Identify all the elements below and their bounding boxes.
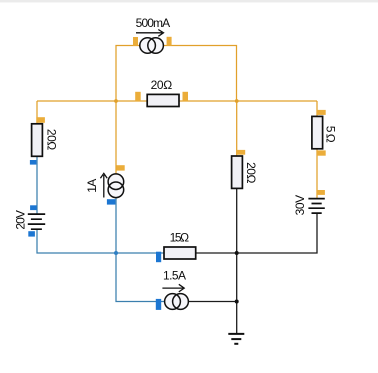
wire: column E between 5-ohm and 30V battery (orange net) [316, 148, 318, 199]
battery V1 20V [28, 205, 45, 236]
wire: column E upper to 5-ohm resistor (orange net) [316, 101, 318, 117]
svg-text:20Ω: 20Ω [45, 129, 59, 150]
resistor R3 20ohm vertical middle [232, 150, 246, 189]
battery V2 30V [308, 190, 325, 213]
svg-text:15Ω: 15Ω [170, 230, 190, 244]
svg-text:500mA: 500mA [136, 16, 171, 30]
node: junction D-row2 (orange) [235, 99, 239, 103]
wire: column A bottom and row3 left segment (blue net) [37, 229, 116, 253]
svg-text:20V: 20V [14, 210, 28, 230]
node: junction B-row3 (blue) [114, 251, 118, 255]
resistor R1 20ohm horizontal [135, 92, 188, 107]
wire: column D upper to R3 (orange net) [236, 101, 238, 157]
current source I3 1.5A [156, 284, 189, 310]
node: junction D-row3 (black) [235, 251, 239, 255]
svg-text:30V: 30V [293, 195, 307, 216]
wire: column B middle to 1A source (orange net) [115, 101, 117, 175]
wire: column A lower R2 to 20V battery (blue net) [36, 156, 38, 215]
wire: column A upper to R2 (orange net) [36, 101, 38, 125]
svg-text:1A: 1A [85, 179, 99, 193]
wire: row3 right of 15-ohm to column E (black net) [196, 213, 318, 253]
wire: column B lower from 1A source down and row4 left (blue net) [116, 197, 165, 302]
svg-text:20Ω: 20Ω [244, 162, 258, 183]
resistor R4 5ohm vertical right [312, 110, 326, 156]
node: junction D-row4 (black) [235, 300, 239, 304]
wire: row4 right of 1.5A source (black net) [189, 301, 237, 303]
wire: column D lower from R3 to ground (black net) [236, 188, 238, 333]
resistor R2 20ohm vertical left [30, 117, 45, 164]
svg-text:20Ω: 20Ω [151, 78, 173, 92]
current source I2 1A vertical [100, 165, 124, 204]
wire: top loop row1 + column B upper (orange net) [116, 46, 237, 102]
node: junction B-row2 (orange) [114, 99, 118, 103]
ground [228, 334, 244, 344]
resistor R5 15ohm horizontal [156, 247, 196, 262]
svg-text:5Ω: 5Ω [324, 126, 338, 143]
current source I1 500mA [133, 30, 172, 54]
wire: row2 horizontal (orange net) [37, 100, 317, 102]
svg-text:1.5A: 1.5A [163, 269, 186, 283]
wire: row3 from junction to 15-ohm resistor (blue net) [116, 252, 165, 254]
